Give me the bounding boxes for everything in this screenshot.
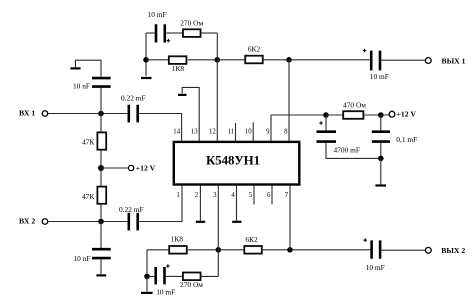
pin 9 number: [266, 129, 270, 136]
wire ch1 upper branch 270 to right node: [202, 32, 218, 34]
svg-text:ВЫХ 1: ВЫХ 1: [442, 56, 466, 65]
svg-text:10 nF: 10 nF: [73, 254, 90, 263]
capacitor 10 mF (ch1 feedback) plates: [156, 24, 165, 42]
wire 6К2 ch2 to output node: [263, 249, 290, 251]
wire pin 11 stub: [235, 123, 237, 141]
capacitor 10 nF ch2 value label: [73, 254, 90, 263]
wire ch2 node to 6К2: [218, 249, 244, 251]
ground bar (pin 4): [232, 221, 241, 223]
resistor 1К8 ch1 value label: [172, 64, 185, 73]
ground bar (10nF ch1): [70, 67, 80, 69]
svg-text:10: 10: [245, 129, 252, 136]
capacitor 0.22 mF ch1 value label: [121, 93, 146, 102]
resistor 1К8 (ch1): [169, 56, 187, 64]
capacitor 0.22 mF (ch2 input): [129, 213, 138, 231]
svg-text:14: 14: [173, 129, 180, 136]
wire ch1 upper branch left: [146, 32, 155, 34]
capacitor 0,1 mF value label: [396, 135, 417, 144]
svg-text:270 Ом: 270 Ом: [180, 280, 203, 289]
wire C10mF out2 to ВЫХ2 terminal: [381, 249, 425, 251]
svg-text:+12 V: +12 V: [136, 164, 156, 173]
ground bar (ch2 RC left node): [141, 292, 153, 294]
capacitor 0.22 mF ch2 value label: [119, 205, 144, 214]
svg-text:470 Ом: 470 Ом: [343, 101, 366, 110]
wire ch1 lower branch 1К8 to right node: [188, 59, 218, 61]
capacitor 4700 mF value label: [334, 145, 361, 154]
wire 47K lower to BX2 node: [100, 204, 102, 222]
capacitor 0,1 mF plates: [372, 132, 390, 142]
node ch1 output junction: [286, 57, 292, 63]
wire pin 10 stub: [252, 122, 254, 141]
svg-text:0.22 mF: 0.22 mF: [119, 205, 144, 214]
wire ch1 lower branch left to 1К8: [146, 59, 168, 61]
terminal +12V right label: [397, 109, 417, 118]
pin 5 number: [249, 192, 253, 199]
ground bar (pin 13): [178, 94, 187, 96]
wire 6К2 ch1 to output node: [263, 59, 289, 61]
resistor 1К8 ch2 value label: [171, 235, 184, 244]
capacitor 10 nF ch1 value label: [73, 82, 90, 91]
wire ch1 upper branch cap to 270: [166, 32, 182, 34]
wire pin 2 to ground: [199, 186, 201, 221]
wire mid node to +12V terminal: [101, 167, 129, 169]
wire 470 Ом to rail right node: [364, 114, 389, 116]
wire pin 5 stub: [253, 186, 255, 205]
resistor 6К2 (ch2): [244, 246, 261, 254]
terminal ВЫХ 1 circle: [425, 58, 431, 64]
resistor 6К2 ch1 value label: [248, 44, 261, 53]
wire pin 6 stub: [271, 186, 273, 205]
wire 4700 mF bottom to filter ground node: [326, 143, 381, 159]
wire cap ch2 left plate to left node: [147, 275, 155, 277]
resistor 270 Ом (ch2): [183, 273, 201, 281]
node +12V rail left junction: [323, 112, 329, 118]
resistor 270 Ом ch2 value label: [180, 280, 203, 289]
capacitor 4700 mF plates: [317, 132, 337, 142]
pin 2 number: [195, 192, 199, 199]
svg-text:0,1 mF: 0,1 mF: [396, 135, 417, 144]
capacitor 10 mF ch2 polarity plus: [166, 264, 170, 268]
svg-text:10 mF: 10 mF: [156, 288, 175, 297]
resistor 6К2 ch2 value label: [245, 235, 258, 244]
pin 14 number: [173, 129, 180, 136]
terminal BX2 label: [19, 217, 35, 226]
wire BX2 to junction to C0.22: [48, 221, 128, 223]
terminal BX1 label: [19, 109, 35, 118]
wire BX1 to junction to C0.22: [48, 113, 128, 115]
svg-text:12: 12: [209, 129, 216, 136]
wire 0,1 mF bottom to filter ground node: [380, 143, 382, 159]
terminal +12V mid label: [136, 164, 156, 173]
resistor 47К lower: [97, 187, 106, 204]
svg-text:ВЫХ 2: ВЫХ 2: [441, 246, 465, 255]
ground bar (supply filter): [375, 184, 386, 186]
wire 10nF ch1 top plate to ground stub: [75, 60, 101, 77]
svg-text:ВХ 2: ВХ 2: [19, 217, 35, 226]
svg-text:5: 5: [249, 192, 253, 199]
node ch1 RC left junction: [143, 57, 149, 63]
wire ch2 RC left corner vertical: [146, 250, 148, 277]
capacitor 10 nF (ch1) plates: [92, 78, 111, 87]
wire BX1 node to 47K upper: [100, 114, 102, 133]
node BX2 junction: [98, 219, 104, 225]
svg-text:7: 7: [285, 192, 289, 199]
svg-text:2: 2: [195, 192, 199, 199]
capacitor 10 mF ch1 polarity plus: [167, 39, 171, 43]
ground bar (pin 2): [196, 221, 205, 223]
wire ch1 RC right node to pin 12: [216, 33, 218, 141]
node BX1 junction: [98, 111, 104, 117]
terminal BX2 circle: [42, 219, 48, 225]
pin 7 number: [285, 192, 289, 199]
resistor 470 Ом: [343, 111, 363, 119]
node ch1 RC right junction: [215, 57, 221, 63]
svg-text:47К: 47К: [82, 137, 94, 146]
capacitor 10 mF out1 value label: [370, 72, 389, 81]
svg-text:9: 9: [266, 129, 270, 136]
svg-text:6К2: 6К2: [248, 44, 261, 53]
terminal +12V right circle: [389, 111, 395, 117]
capacitor 10 mF (out 2) plates: [372, 240, 381, 258]
capacitor 0.22 mF (ch1 input): [129, 105, 138, 123]
resistor 47К upper value label: [82, 137, 94, 146]
wire 47K upper to mid node to 47K lower: [100, 150, 102, 186]
capacitor 10 mF out2 polarity plus: [364, 238, 368, 242]
svg-text:6К2: 6К2: [245, 235, 258, 244]
capacitor 10 mF out1 polarity plus: [363, 49, 367, 53]
op-amp U1 К548УН1 body: [174, 142, 299, 185]
wire pin 9 to +12V rail: [271, 115, 326, 141]
wire rail right node to 0,1 mF: [380, 115, 382, 131]
capacitor 4700 mF polarity plus: [319, 121, 323, 125]
svg-text:13: 13: [191, 129, 198, 136]
svg-text:1К8: 1К8: [171, 235, 184, 244]
wire 10nF ch1 bottom plate to BX1 node: [100, 88, 102, 114]
wire pin 13 to ground: [182, 87, 199, 141]
wire rail left node to 470 Ом: [326, 114, 342, 116]
pin 4 number: [231, 192, 235, 199]
wire 1К8 ch2 to right node: [188, 249, 219, 251]
terminal ВЫХ 2 label: [441, 246, 465, 255]
capacitor 10 mF (out 1) plates: [371, 51, 380, 71]
wire C10mF out1 to BЫХ1 terminal: [381, 59, 425, 61]
svg-text:10 nF: 10 nF: [73, 82, 90, 91]
svg-text:ВХ 1: ВХ 1: [19, 109, 35, 118]
wire BX2 node to 10nF ch2: [100, 222, 102, 249]
capacitor 10 mF (ch2 feedback) plates: [156, 267, 165, 284]
svg-text:10 mF: 10 mF: [366, 263, 385, 272]
svg-text:270 Ом: 270 Ом: [180, 19, 203, 28]
terminal ВЫХ 2 circle: [425, 247, 431, 253]
svg-text:6: 6: [267, 192, 271, 199]
svg-text:10 mF: 10 mF: [148, 10, 167, 19]
svg-text:3: 3: [213, 192, 217, 199]
wire ch1 node to 6К2: [217, 59, 245, 61]
capacitor 10 mF ch2 value label: [156, 288, 175, 297]
wire 270 ch2 to cap: [166, 275, 182, 277]
pin 10 number: [245, 129, 252, 136]
terminal +12V mid circle: [128, 165, 133, 170]
wire pin 8 vertical: [288, 60, 290, 141]
U1 value label К548УН1: [206, 153, 260, 167]
svg-text:4700 mF: 4700 mF: [334, 145, 361, 154]
pin 3 number: [213, 192, 217, 199]
wire C0.22 ch1 to pin 14: [139, 114, 182, 142]
wire ch1 RC left node vertical with ground drop: [145, 33, 147, 76]
svg-text:8: 8: [284, 129, 288, 136]
pin 12 number: [209, 129, 216, 136]
capacitor 10 mF ch1 value label: [148, 10, 167, 19]
node ch2 RC right junction: [216, 247, 222, 253]
svg-text:4: 4: [231, 192, 235, 199]
node filter ground junction: [378, 156, 384, 162]
svg-text:+12 V: +12 V: [397, 109, 417, 118]
pin 1 number: [176, 192, 179, 199]
resistor 270 Ом (ch1): [183, 29, 201, 37]
resistor 47К lower value label: [82, 192, 94, 201]
wire ch2 left node to ground: [146, 276, 148, 291]
pin 8 number: [284, 129, 288, 136]
wire ch2 RC node down to 270 row: [217, 250, 219, 277]
capacitor 10 nF (ch2) plates: [92, 249, 111, 258]
svg-text:11: 11: [227, 129, 234, 136]
svg-text:К548УН1: К548УН1: [206, 153, 260, 167]
node ch2 output junction: [287, 247, 293, 253]
ground bar (10nF ch2): [96, 274, 106, 276]
capacitor 10 mF out2 value label: [366, 263, 385, 272]
terminal BX1 circle: [42, 111, 48, 117]
node +12V rail right junction: [378, 112, 384, 118]
wire pin 7 vertical: [289, 186, 291, 250]
wire filter node to ground: [380, 158, 382, 184]
wire ch2 270 row right segment: [202, 275, 219, 277]
resistor 47К upper: [97, 132, 106, 149]
wire 10nF ch2 to ground bar: [100, 259, 102, 274]
svg-text:47К: 47К: [82, 192, 94, 201]
pin 11 number: [227, 129, 234, 136]
resistor 6К2 (ch1): [245, 56, 263, 64]
wire pin 3 to ch2 RC node: [217, 186, 219, 250]
node ch2 RC left junction: [144, 274, 150, 280]
wire pin 4 to ground: [236, 186, 238, 221]
svg-text:1: 1: [176, 192, 179, 199]
ground bar (ch1 RC left node): [141, 77, 152, 79]
svg-text:1К8: 1К8: [172, 64, 185, 73]
pin 13 number: [191, 129, 198, 136]
wire ch2 lower branch left to 1К8: [147, 249, 168, 251]
resistor 1К8 (ch2): [169, 246, 187, 254]
resistor 270 Ом ch1 value label: [180, 19, 203, 28]
node divider mid junction: [98, 165, 104, 171]
pin 6 number: [267, 192, 271, 199]
wire ch2 output node to C10mF out2: [290, 249, 370, 251]
svg-text:10 mF: 10 mF: [370, 72, 389, 81]
resistor 470 Ом value label: [343, 101, 366, 110]
svg-text:0.22 mF: 0.22 mF: [121, 93, 146, 102]
wire ch1 output node to C10mF out: [289, 59, 370, 61]
wire rail left node to 4700 mF: [325, 115, 327, 131]
terminal ВЫХ 1 label: [442, 56, 466, 65]
wire C0.22 ch2 to pin 1: [139, 186, 182, 222]
